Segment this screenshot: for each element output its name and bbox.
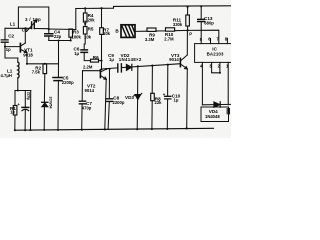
resistor R4 bbox=[84, 8, 86, 13]
zener VD3 symbol bbox=[135, 95, 140, 100]
svg-text:1μ: 1μ bbox=[174, 97, 179, 102]
capacitor C6 plates bbox=[81, 50, 87, 53]
wire base line bbox=[5, 46, 20, 48]
svg-text:1N4148×2: 1N4148×2 bbox=[119, 57, 142, 62]
resistor R5 bbox=[84, 21, 86, 27]
svg-text:2.7M: 2.7M bbox=[164, 37, 174, 42]
wire tank bottom left segment bbox=[5, 27, 32, 29]
svg-text:2200p: 2200p bbox=[113, 100, 125, 105]
svg-text:VD4: VD4 bbox=[209, 109, 218, 114]
svg-text:1μ: 1μ bbox=[109, 57, 114, 62]
svg-text:100k: 100k bbox=[72, 34, 82, 39]
svg-text:22p: 22p bbox=[54, 34, 62, 39]
capacitor C9 plates bbox=[118, 64, 122, 72]
svg-text:220μ: 220μ bbox=[27, 92, 31, 101]
svg-text:10k: 10k bbox=[103, 31, 111, 36]
svg-text:2CW54: 2CW54 bbox=[48, 97, 52, 109]
transistor VT1 bbox=[19, 44, 21, 52]
svg-text:9014: 9014 bbox=[169, 57, 179, 62]
wire feedback vertical x58.5 bbox=[58, 41, 60, 64]
resistor R1 bbox=[14, 91, 16, 106]
wire top rail bbox=[76, 6, 231, 9]
resistor R11 bbox=[187, 7, 189, 15]
transistor VT3 bbox=[179, 58, 181, 66]
capacitor C7 plates bbox=[79, 101, 85, 104]
capacitor C3 trimmer plates bbox=[32, 22, 35, 29]
capacitor C10 bbox=[166, 65, 169, 129]
wire IC pin 2 stub bbox=[219, 62, 221, 72]
resistor R10 bbox=[166, 28, 175, 31]
resistor R2 column bbox=[44, 63, 46, 65]
resistor R6 bbox=[91, 59, 99, 62]
IC pin numbers top bbox=[200, 37, 229, 69]
capacitor C13 bbox=[200, 6, 202, 43]
svg-text:2.2M: 2.2M bbox=[83, 65, 93, 70]
transistor VT2 bbox=[99, 70, 101, 78]
svg-text:1p: 1p bbox=[6, 47, 11, 52]
IC box BA2103 bbox=[195, 44, 232, 63]
wire IC pin 1 column bbox=[227, 62, 229, 104]
capacitor C4 plates bbox=[45, 34, 53, 36]
wire VT1 collector column bbox=[24, 28, 26, 43]
wire VT3 collector column bbox=[186, 30, 188, 55]
svg-text:R6: R6 bbox=[93, 55, 99, 60]
IC pin6 stub bbox=[210, 39, 212, 44]
svg-text:2200p: 2200p bbox=[62, 80, 74, 85]
svg-text:330k: 330k bbox=[173, 22, 183, 27]
svg-text:3 / 10p: 3 / 10p bbox=[25, 17, 41, 22]
resistor R7 bbox=[101, 8, 103, 28]
wire IC pin 3 jog to pin 2 bbox=[212, 62, 220, 72]
wire bottom ground rail bbox=[15, 128, 214, 130]
wire zener VD3 column bbox=[136, 66, 139, 129]
IC pin8 stub bbox=[226, 38, 228, 43]
capacitor C5 plates bbox=[53, 78, 62, 81]
capacitor C2 plates bbox=[1, 40, 8, 42]
capacitor C10 plates bbox=[165, 96, 171, 99]
wire right branch x30.7 bbox=[30, 91, 32, 131]
inductor L1 bbox=[17, 58, 19, 62]
diode VD2 bbox=[126, 64, 131, 70]
wire signal line to VT3 bbox=[102, 64, 181, 69]
svg-text:22k: 22k bbox=[155, 100, 163, 105]
capacitor C4 bbox=[48, 29, 50, 41]
wire node line y40.5 bbox=[49, 40, 71, 42]
wire osc node line y29 bbox=[49, 28, 76, 31]
resistor R9 bbox=[147, 28, 156, 31]
svg-text:20k: 20k bbox=[88, 17, 96, 22]
microphone B box bbox=[121, 25, 135, 38]
svg-text:1μ: 1μ bbox=[74, 51, 79, 56]
svg-text:C3: C3 bbox=[22, 28, 28, 33]
svg-text:BA2103: BA2103 bbox=[207, 51, 224, 56]
diode VD1 bbox=[42, 101, 48, 103]
wire IC pin 4 to receiver bbox=[201, 62, 203, 104]
svg-text:680p: 680p bbox=[204, 21, 214, 26]
svg-text:10k: 10k bbox=[84, 35, 92, 40]
wire VT2 emitter column bbox=[105, 79, 106, 129]
capacitor C8 bbox=[108, 69, 109, 129]
wire mic output line bbox=[136, 30, 188, 31]
svg-text:C2: C2 bbox=[8, 33, 14, 38]
diode VD4 line bbox=[202, 103, 231, 105]
svg-text:9018: 9018 bbox=[23, 53, 33, 58]
wire VT3 emitter column bbox=[186, 69, 189, 128]
svg-text:1k: 1k bbox=[10, 110, 15, 115]
capacitor C5 bbox=[57, 64, 60, 130]
svg-text:+: + bbox=[163, 92, 166, 97]
resistor R3 bbox=[69, 29, 73, 37]
wire top rail left corner drop bbox=[75, 9, 77, 30]
tank loop rectangle bbox=[18, 7, 48, 29]
svg-text:L1: L1 bbox=[10, 21, 16, 26]
receiver box VD4 bbox=[201, 107, 229, 122]
wire tank bottom right segment bbox=[34, 28, 49, 30]
capacitor C13 plates bbox=[198, 19, 205, 21]
svg-text:9014: 9014 bbox=[85, 88, 95, 93]
wire VT1 emitter column and branch bbox=[27, 53, 59, 64]
wire R11 node to IC pin7 bbox=[188, 30, 219, 43]
svg-text:470p: 470p bbox=[82, 106, 92, 111]
capacitor C1 electrolytic bbox=[24, 91, 26, 131]
svg-text:7.5k: 7.5k bbox=[32, 70, 41, 75]
svg-text:1N4048: 1N4048 bbox=[205, 114, 220, 119]
wire bottom-left node line bbox=[15, 90, 31, 92]
resistor R8 bbox=[151, 66, 154, 130]
svg-text:4.7μH: 4.7μH bbox=[1, 73, 12, 78]
svg-text:P: P bbox=[189, 31, 192, 36]
svg-text:3.3M: 3.3M bbox=[145, 37, 155, 42]
svg-text:VD3: VD3 bbox=[125, 95, 134, 100]
svg-text:R5: R5 bbox=[88, 26, 94, 31]
wire VT2 base line bbox=[83, 70, 101, 72]
capacitor C8 plates bbox=[106, 99, 113, 102]
capacitor C7 bbox=[81, 71, 84, 130]
wire left column x5 bbox=[5, 28, 18, 58]
svg-text:+: + bbox=[17, 102, 20, 107]
capacitor C3 trimmer arrow bbox=[27, 20, 38, 32]
